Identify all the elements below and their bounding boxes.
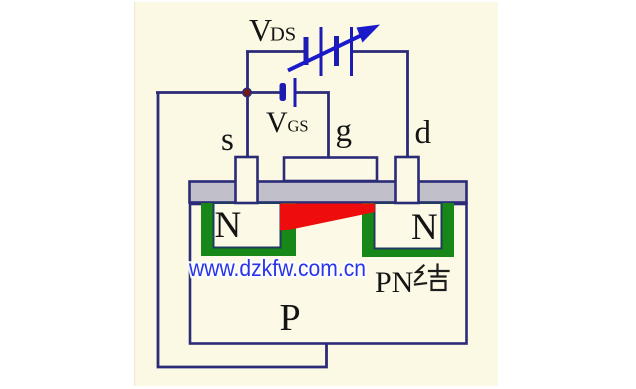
svg-text:DS: DS	[270, 24, 296, 46]
svg-text:www.dzkfw.com.cn: www.dzkfw.com.cn	[188, 255, 366, 281]
svg-text:d: d	[415, 115, 432, 151]
svg-text:P: P	[280, 297, 301, 339]
svg-text:V: V	[266, 106, 288, 139]
svg-text:g: g	[336, 113, 353, 149]
svg-text:GS: GS	[288, 117, 309, 136]
svg-text:N: N	[215, 205, 242, 246]
svg-text:V: V	[249, 12, 272, 48]
svg-text:N: N	[411, 207, 438, 248]
svg-text:s: s	[221, 122, 234, 158]
svg-text:PN: PN	[375, 266, 413, 299]
